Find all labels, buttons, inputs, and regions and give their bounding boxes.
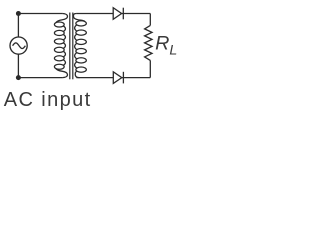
node B junction dot bottom-left (16, 75, 21, 80)
caption AC input (4, 89, 92, 112)
wire left rail lower (source bottom to node B) (17, 54, 19, 78)
AC source sine symbol (13, 43, 26, 49)
diode D2 cathode bar (122, 72, 124, 84)
diode D1 cathode bar (122, 8, 124, 20)
wire secondary top to diode D1 anode (76, 13, 113, 15)
transformer T1 core line right (72, 13, 74, 80)
AC source VS circle (10, 37, 27, 54)
wire bottom-right corner to diode D2 cathode (122, 77, 151, 79)
resistor RL zigzag (145, 25, 152, 60)
transformer T1 secondary winding (73, 14, 86, 78)
wire right rail lower (resistor RL to bottom corner) (149, 60, 151, 77)
diode D1 triangle (113, 8, 121, 20)
wire bottom-left horizontal (node B to primary bottom) (18, 77, 62, 79)
wire D2 anode to secondary bottom (76, 77, 113, 79)
wire left rail upper (node A to source top) (17, 14, 19, 38)
wire D1 cathode to top-right corner (122, 13, 151, 15)
wire top-left horizontal (node A to primary) (18, 13, 62, 15)
diode D2 triangle (113, 72, 122, 84)
node A junction dot top-left (16, 11, 21, 16)
wire right rail upper (corner down to resistor RL) (149, 14, 151, 26)
transformer T1 core line left (69, 13, 71, 80)
transformer T1 primary winding (54, 14, 67, 78)
